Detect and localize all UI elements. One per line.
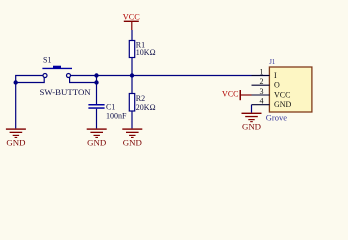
- svg-text:Grove: Grove: [266, 113, 287, 123]
- svg-text:J1: J1: [269, 59, 275, 66]
- capacitor C1: [88, 103, 127, 121]
- svg-text:1: 1: [260, 67, 264, 76]
- wire pin4 to gnd: [251, 105, 253, 113]
- wire R1 to node: [131, 58, 133, 76]
- wire node to R2: [131, 76, 133, 94]
- pin 1: [252, 67, 278, 80]
- node junction bus-switch: [94, 73, 98, 77]
- svg-text:S1: S1: [43, 56, 51, 65]
- svg-text:GND: GND: [123, 137, 142, 147]
- wire R2 to gnd: [131, 111, 133, 128]
- wire between junctions: [96, 76, 98, 83]
- node junction bus-R: [130, 73, 134, 77]
- wire left gnd drop: [15, 83, 17, 129]
- wire left loop bottom: [16, 77, 45, 82]
- svg-text:GND: GND: [87, 137, 106, 147]
- svg-text:VCC: VCC: [274, 91, 290, 100]
- connector J1: [266, 59, 312, 123]
- pin 2: [252, 77, 281, 90]
- wire main bus: [71, 75, 270, 77]
- svg-text:C1: C1: [106, 103, 115, 112]
- node junction loop-C1: [94, 80, 98, 84]
- svg-text:O: O: [274, 81, 280, 90]
- svg-text:I: I: [274, 71, 277, 80]
- power port VCC (top): [123, 12, 141, 30]
- svg-text:20KΩ: 20KΩ: [136, 103, 156, 112]
- svg-text:10KΩ: 10KΩ: [136, 48, 156, 57]
- resistor R2: [129, 94, 155, 112]
- svg-text:GND: GND: [274, 100, 292, 109]
- ground (pin 4): [242, 113, 262, 132]
- wire VCC to R1: [131, 30, 133, 41]
- svg-text:VCC: VCC: [222, 90, 238, 99]
- svg-text:R2: R2: [136, 94, 145, 103]
- ground (under R2): [122, 128, 142, 147]
- switch S1: [40, 56, 92, 98]
- svg-text:VCC: VCC: [123, 12, 141, 21]
- wire right loop: [70, 77, 97, 82]
- resistor R1: [129, 41, 155, 58]
- power port VCC (pin 3): [222, 90, 251, 101]
- wire C1 to gnd: [96, 109, 98, 129]
- svg-text:2: 2: [260, 77, 264, 86]
- svg-text:4: 4: [260, 97, 264, 106]
- ground (under C1): [87, 128, 107, 147]
- svg-text:3: 3: [260, 87, 264, 96]
- wire left of switch: [16, 76, 43, 83]
- pin 3: [252, 87, 291, 100]
- wire to C1: [96, 83, 98, 105]
- svg-text:GND: GND: [242, 122, 261, 132]
- ground (left): [6, 128, 26, 147]
- svg-text:100nF: 100nF: [106, 111, 127, 120]
- svg-text:GND: GND: [6, 137, 25, 147]
- pin 4: [252, 97, 292, 110]
- svg-text:SW-BUTTON: SW-BUTTON: [40, 87, 92, 97]
- node junction left: [14, 80, 18, 84]
